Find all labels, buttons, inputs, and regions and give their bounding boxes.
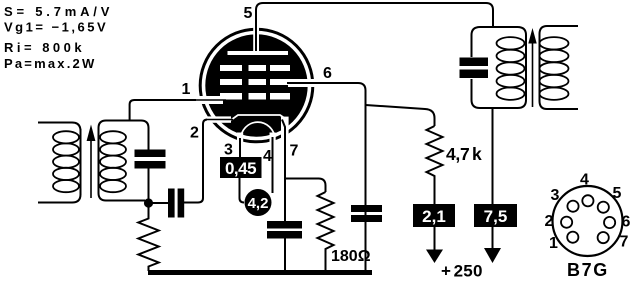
B7G pin 6: [604, 217, 615, 228]
svg-text:2,1: 2,1: [422, 207, 446, 226]
tube U1 slit pin5: [253, 26, 259, 52]
svg-text:S= 5.7mA/V: S= 5.7mA/V: [4, 4, 113, 19]
transformer T2 secondary spine: [540, 26, 579, 109]
tube U1 slit pin6: [288, 79, 318, 87]
wire C1 bottom lead: [148, 169, 150, 201]
meter box 7,5: [474, 204, 517, 227]
wire pin 4: [272, 137, 274, 193]
svg-text:4: 4: [580, 172, 589, 189]
svg-text:5: 5: [244, 5, 253, 22]
tube U1 grid g2 dashes: [220, 79, 242, 85]
node A junction dot: [144, 198, 153, 207]
wire branch to R3: [285, 179, 326, 193]
svg-text:Vg1= −1,65V: Vg1= −1,65V: [4, 20, 108, 35]
tube U1 envelope ring: [200, 29, 313, 142]
wire pin 3: [239, 138, 241, 157]
tube U1 cathode: [231, 115, 288, 120]
svg-text:B7G: B7G: [567, 260, 609, 280]
svg-text:1: 1: [549, 235, 558, 252]
wire grid g1 horizontal: [150, 99, 199, 101]
arrow to +250 left: [434, 227, 436, 251]
capacitor C3 screen bypass: [351, 205, 382, 212]
transformer T1 primary coil loops: [53, 131, 79, 192]
svg-text:+250: +250: [441, 262, 483, 281]
B7G pin 3: [567, 201, 578, 212]
svg-text:3: 3: [551, 187, 560, 204]
wire riser to pin 1: [130, 100, 150, 121]
resistor R2 4.7k: [427, 126, 443, 204]
transformer T1 secondary spine and frame: [99, 121, 149, 201]
svg-text:4,2: 4,2: [248, 195, 269, 212]
svg-text:Pa=max.2W: Pa=max.2W: [4, 56, 96, 71]
tube U1 anode bar: [228, 51, 289, 55]
svg-text:4: 4: [263, 148, 272, 165]
tube U1 slit pin2: [207, 116, 231, 122]
capacitor C2 coupling: [168, 189, 175, 218]
transformer T2 primary coil loops: [497, 37, 525, 100]
tube U1 slit pin1: [196, 96, 223, 104]
wire pin 6 screen grid: [287, 83, 366, 270]
meter circle 4,2: [245, 189, 272, 216]
wire pin 7 cathode: [282, 120, 285, 222]
svg-text:2: 2: [190, 125, 199, 142]
wire C5 to rail: [284, 239, 286, 272]
svg-text:7: 7: [620, 234, 629, 251]
tube U1 slit pin7: [281, 117, 289, 140]
wire box to meter circle: [240, 178, 245, 203]
meter box 0,45: [220, 157, 262, 178]
B7G pin 7: [598, 232, 609, 243]
svg-text:6: 6: [323, 65, 332, 82]
wire C2 to pin 2: [184, 120, 214, 203]
wire branch to R2: [366, 105, 435, 126]
arrow to +250 right: [492, 227, 494, 249]
B7G pin 2: [561, 217, 572, 228]
wire pin 1 inside slit: [196, 99, 226, 101]
svg-text:4,7k: 4,7k: [446, 144, 482, 164]
resistor R1 grid leak: [138, 207, 158, 271]
tube U1 grid g1 dashes: [220, 93, 242, 100]
wire transformer T2 primary bottom to box: [492, 108, 494, 204]
capacitor C5 cathode bypass: [267, 221, 302, 229]
transformer T1 primary lead top: [38, 123, 81, 132]
transformer T2 frame with primary: [472, 27, 493, 57]
ground rail: [148, 270, 372, 275]
svg-text:7: 7: [290, 143, 299, 160]
B7G pin 1: [567, 232, 578, 243]
svg-text:0,45: 0,45: [225, 159, 256, 178]
tube U1 slit pin4: [270, 133, 276, 145]
svg-text:180Ω: 180Ω: [331, 248, 371, 265]
wire node A to C2: [149, 202, 169, 204]
svg-text:5: 5: [613, 185, 622, 202]
svg-text:7,5: 7,5: [484, 207, 508, 226]
svg-text:3: 3: [224, 142, 233, 159]
tube U1 envelope disc: [205, 34, 307, 136]
capacitor C4 across T2 primary: [460, 58, 489, 67]
transformer T1 primary spine: [80, 129, 82, 195]
svg-text:1: 1: [182, 81, 191, 98]
B7G base outline: [553, 186, 623, 256]
tube U1 heater dome: [241, 122, 276, 139]
tube U1 grid g3 dashes: [220, 65, 242, 71]
wire pin 5 anode to top run: [256, 3, 493, 51]
capacitor C1 across secondary: [135, 150, 166, 158]
svg-text:2: 2: [545, 213, 554, 230]
transformer T1 secondary coil loops: [100, 131, 126, 192]
B7G pin 5: [598, 202, 609, 213]
transformer T2 tuning arrow: [532, 40, 534, 107]
svg-text:Ri= 800k: Ri= 800k: [4, 40, 85, 55]
wire pin 2 inside slit: [207, 119, 233, 121]
tube U1 slit pin3: [237, 133, 243, 145]
B7G pin 4: [582, 195, 593, 206]
transformer T1 primary lead bottom: [38, 195, 81, 203]
resistor R3 180 ohm: [318, 192, 334, 271]
svg-text:6: 6: [622, 214, 631, 231]
transformer T1 tuning arrow: [90, 136, 92, 198]
transformer T2 secondary coil loops: [540, 37, 569, 100]
meter box 2,1: [413, 204, 455, 227]
